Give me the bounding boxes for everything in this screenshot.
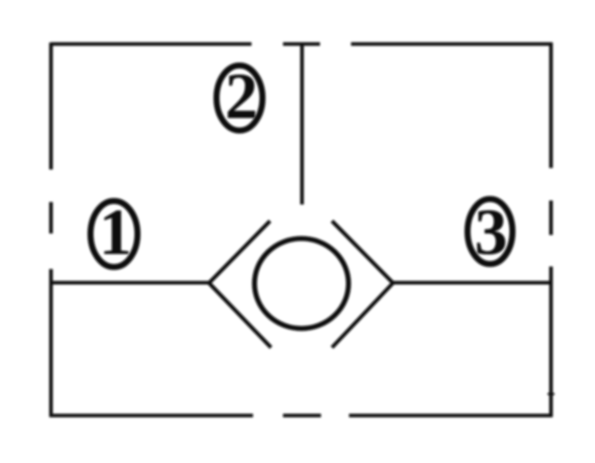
- svg-text:1: 1: [99, 196, 132, 269]
- svg-text:2: 2: [225, 60, 258, 133]
- svg-text:3: 3: [475, 196, 508, 269]
